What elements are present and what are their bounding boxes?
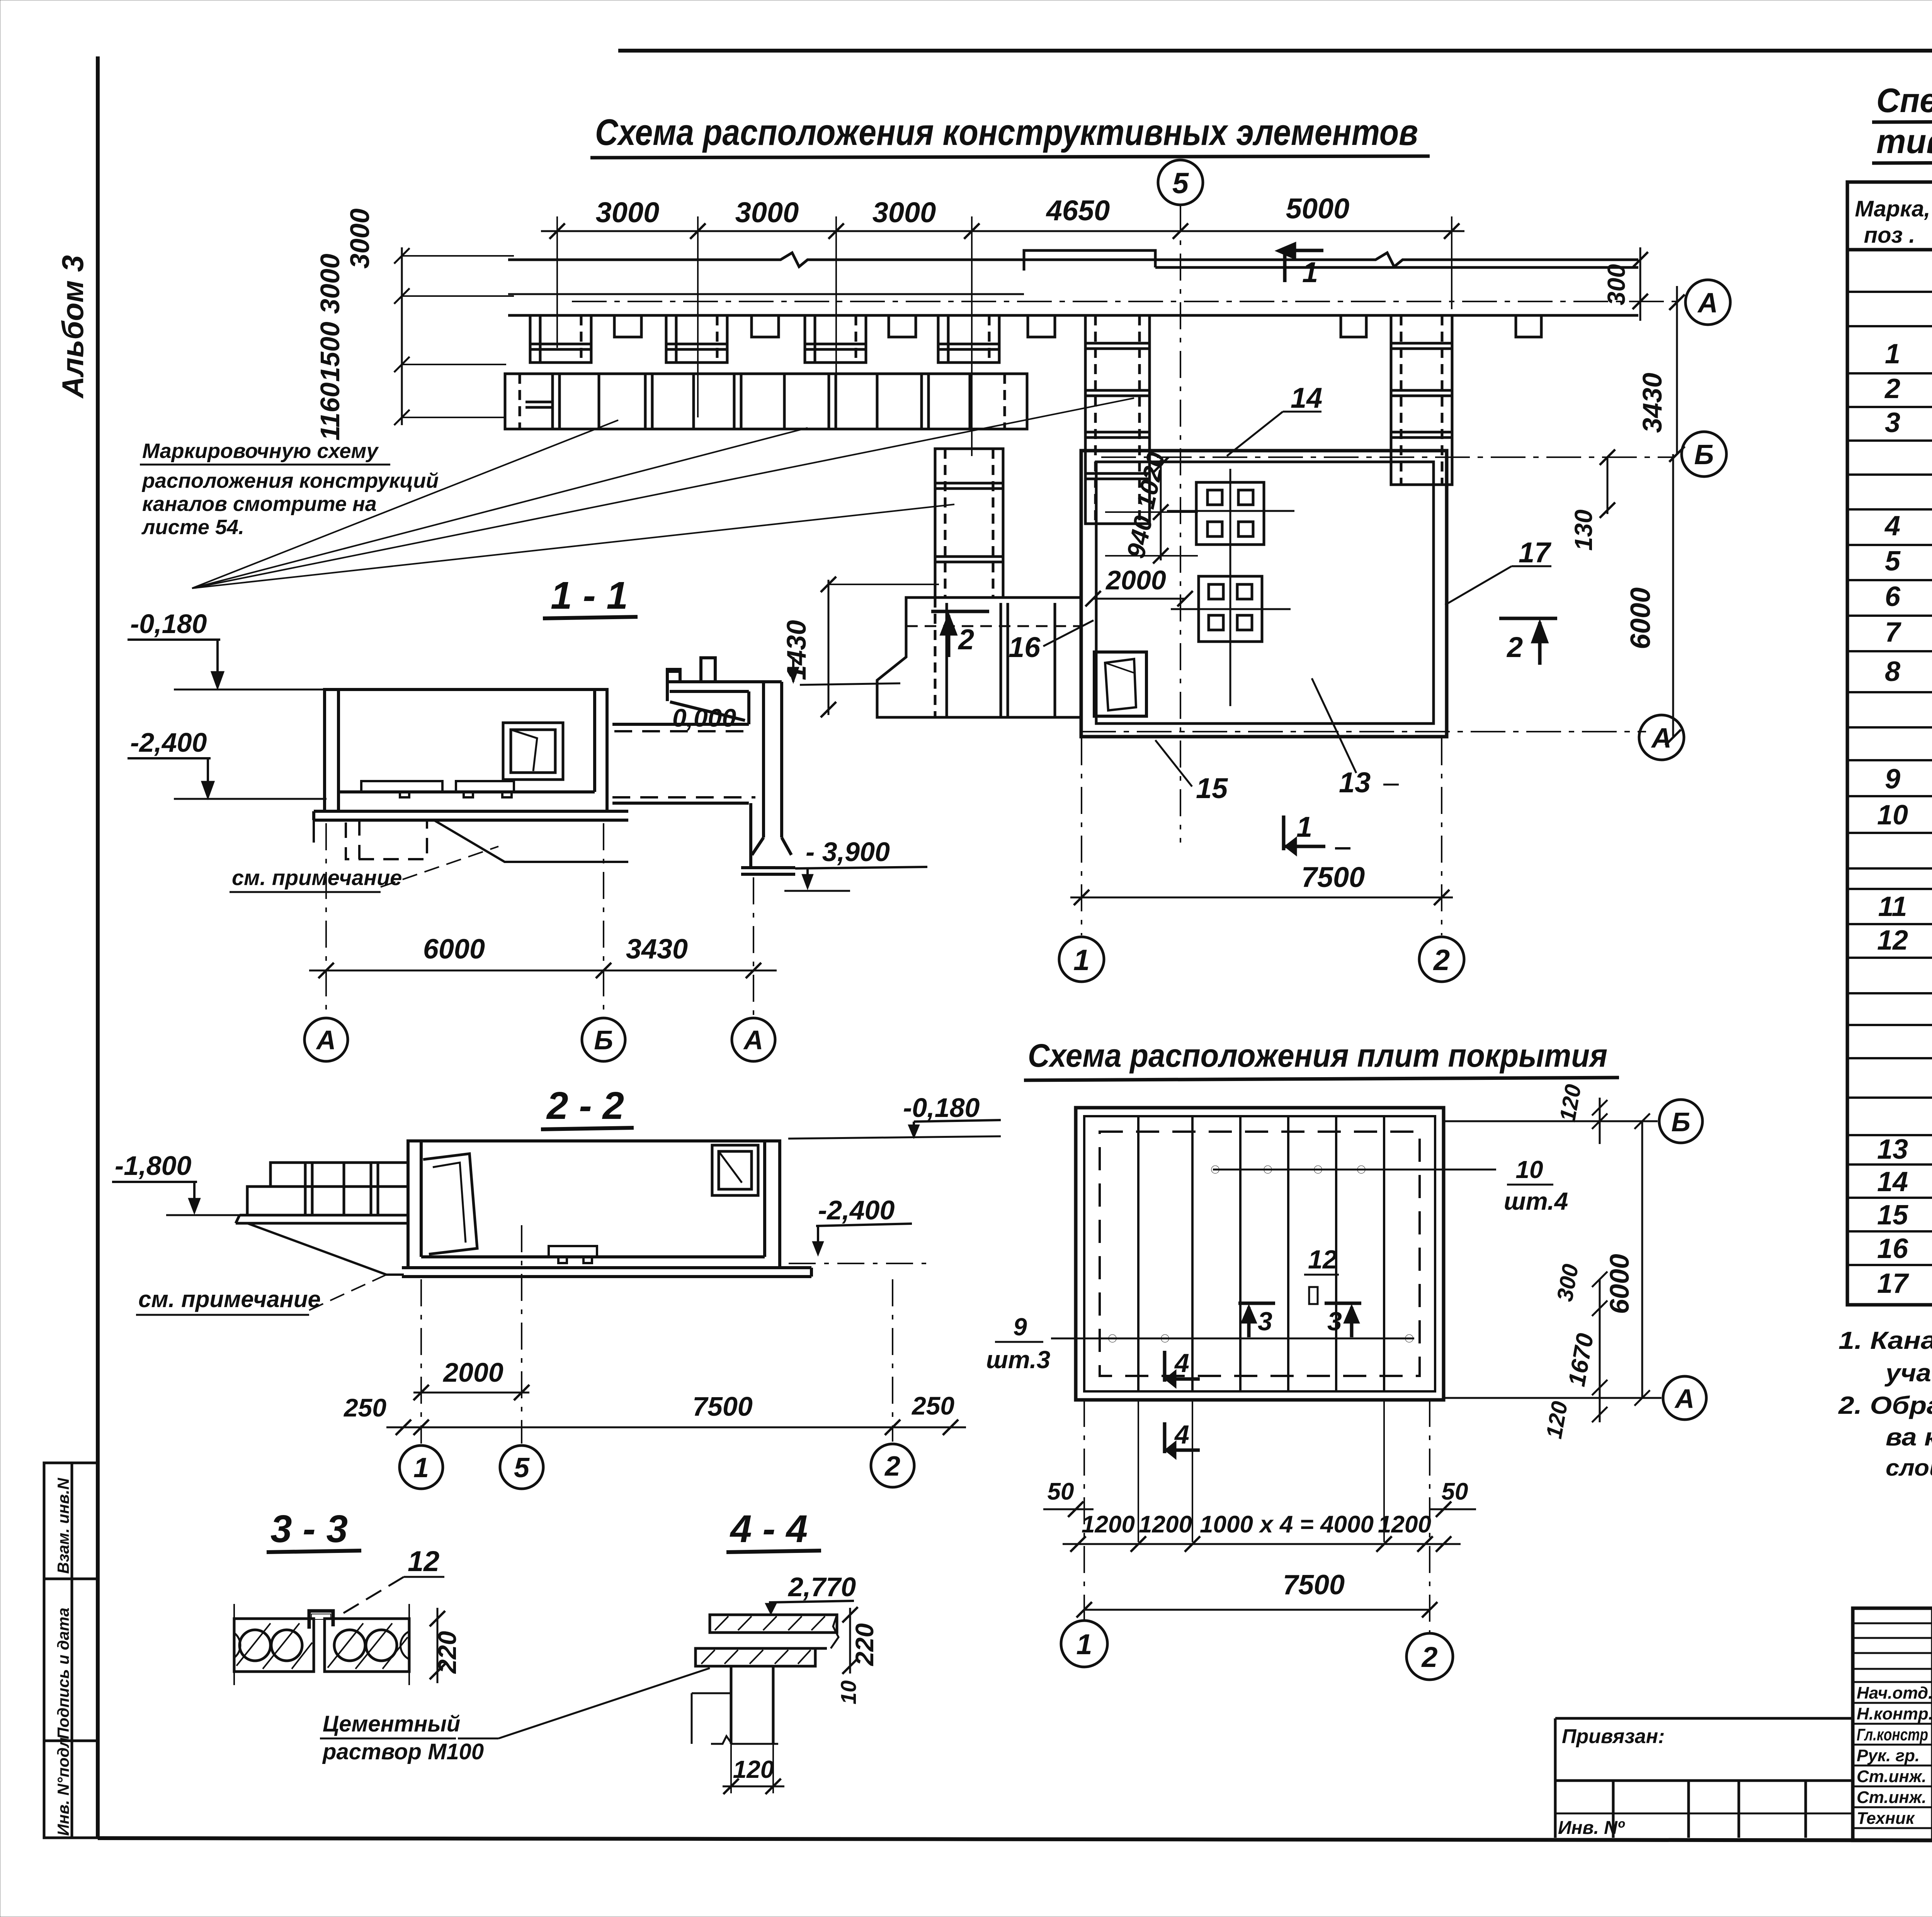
svg-text:16: 16 <box>1009 631 1041 663</box>
svg-text:Нач.отд.: Нач.отд. <box>1857 1684 1932 1702</box>
circles 1 2 <box>1061 1621 1107 1667</box>
right axis lines and circles <box>1445 1120 1658 1122</box>
svg-text:12: 12 <box>1877 925 1908 956</box>
left dim stack <box>394 247 514 425</box>
dims 1020 / 940 <box>1160 460 1162 560</box>
svg-text:1500: 1500 <box>315 322 345 382</box>
dim 2000 <box>413 1392 529 1394</box>
svg-text:11: 11 <box>1878 891 1907 922</box>
svg-text:17: 17 <box>1877 1268 1909 1299</box>
svg-text:1. Каналы монтировать до: 1. Каналы монтировать до бетонирования к… <box>1838 1326 1932 1354</box>
svg-text:7500: 7500 <box>692 1391 753 1422</box>
svg-text:4: 4 <box>1174 1420 1189 1449</box>
svg-text:4650: 4650 <box>1046 194 1110 226</box>
buried dashed box <box>346 820 427 859</box>
svg-text:9: 9 <box>1885 764 1900 795</box>
svg-text:Маркировочную схему: Маркировочную схему <box>142 439 379 463</box>
svg-text:1 - 1: 1 - 1 <box>551 574 628 617</box>
wall line above teeth <box>508 314 1638 317</box>
svg-text:17: 17 <box>1519 536 1552 569</box>
section marks 3 <box>1238 1303 1275 1337</box>
svg-text:6000: 6000 <box>423 934 485 965</box>
svg-text:А: А <box>1674 1384 1695 1414</box>
top dim chain line <box>541 230 1464 232</box>
dim 2000 <box>1093 598 1185 600</box>
svg-text:см. примечание: см. примечание <box>232 865 402 890</box>
svg-text:12: 12 <box>1308 1245 1337 1274</box>
precast block band <box>505 374 1027 429</box>
foundation pad group lower <box>1171 576 1291 642</box>
svg-text:3000: 3000 <box>345 208 375 269</box>
section mark 2 right <box>1499 618 1557 665</box>
svg-text:расположения конструкций: расположения конструкций <box>141 469 439 492</box>
svg-text:- 3,900: - 3,900 <box>806 837 890 867</box>
svg-text:-2,400: -2,400 <box>818 1195 895 1225</box>
svg-text:-1,800: -1,800 <box>115 1151 192 1181</box>
circles 1 5 2 <box>400 1445 443 1489</box>
section mark 1 bottom <box>1284 815 1350 853</box>
svg-text:3 - 3: 3 - 3 <box>270 1507 348 1551</box>
svg-text:2 - 2: 2 - 2 <box>546 1084 624 1127</box>
svg-text:Инв. N°подл: Инв. N°подл <box>54 1737 72 1836</box>
right dims <box>1592 1098 1650 1422</box>
slope <box>247 1223 404 1275</box>
privyazan box <box>1555 1718 1853 1838</box>
svg-text:250: 250 <box>911 1391 954 1420</box>
plan rectangles <box>1076 1108 1444 1400</box>
svg-text:А: А <box>316 1025 336 1055</box>
table outer <box>1847 182 1932 1305</box>
svg-text:16: 16 <box>1877 1233 1908 1264</box>
svg-text:2: 2 <box>1506 631 1523 663</box>
main box <box>408 1141 780 1268</box>
svg-text:120: 120 <box>1555 1083 1586 1124</box>
svg-text:5: 5 <box>1172 167 1189 200</box>
gallery structure right <box>612 658 795 874</box>
floor tabs <box>549 1246 597 1257</box>
svg-text:ва каналов должна производи: ва каналов должна производиться песчаным… <box>1886 1423 1932 1451</box>
svg-text:3430: 3430 <box>1637 373 1667 433</box>
section mark 1 top <box>1279 244 1323 282</box>
dim 130 <box>1607 457 1609 514</box>
svg-text:4: 4 <box>1174 1348 1189 1378</box>
inner duct trapezoid <box>423 1154 477 1254</box>
svg-text:3000: 3000 <box>735 196 799 228</box>
svg-text:6: 6 <box>1885 581 1901 612</box>
svg-text:Инв. Nº: Инв. Nº <box>1558 1818 1625 1838</box>
svg-text:слойно с уплотнением при соблю: слойно с уплотнением при соблюдении след… <box>1886 1455 1932 1481</box>
verticals extending down <box>1083 1400 1085 1621</box>
MC1 connector <box>309 1611 333 1629</box>
svg-text:Цементный: Цементный <box>323 1711 460 1737</box>
3-3 left slab <box>234 1604 314 1685</box>
dim 3430 vertical <box>1676 286 1678 454</box>
svg-text:1200: 1200 <box>1378 1511 1431 1538</box>
svg-text:4 - 4: 4 - 4 <box>730 1507 808 1551</box>
floor items small tabs <box>361 781 514 797</box>
svg-text:3: 3 <box>1885 407 1900 438</box>
dim 6000 vertical <box>1672 454 1674 737</box>
window top right <box>712 1145 758 1195</box>
svg-text:поз .: поз . <box>1864 223 1915 248</box>
svg-text:Привязан:: Привязан: <box>1562 1725 1665 1748</box>
svg-text:1: 1 <box>1296 811 1312 843</box>
svg-text:3000: 3000 <box>596 196 660 228</box>
svg-text:1200: 1200 <box>1082 1511 1135 1538</box>
svg-text:Б: Б <box>1671 1107 1690 1137</box>
tooth 4 <box>938 315 999 363</box>
svg-text:120: 120 <box>1541 1399 1573 1441</box>
channel stack left <box>236 1163 408 1223</box>
svg-text:9: 9 <box>1013 1313 1027 1341</box>
gap notches <box>614 315 641 337</box>
svg-text:Подпись и дата: Подпись и дата <box>54 1608 72 1739</box>
svg-text:0,000: 0,000 <box>672 703 736 732</box>
left stamp box <box>44 1463 98 1838</box>
svg-text:2. Обратная засыпка пазух к: 2. Обратная засыпка пазух котлована в ме… <box>1838 1391 1932 1419</box>
svg-text:10: 10 <box>1515 1156 1543 1183</box>
dim 250 7500 250 <box>386 1427 966 1428</box>
svg-text:1: 1 <box>1076 1628 1092 1660</box>
svg-text:7500: 7500 <box>1301 861 1365 893</box>
tooth 3 <box>805 315 866 363</box>
frame left <box>96 56 100 1838</box>
axis A dash-dot <box>572 301 1681 302</box>
row lines <box>1847 292 1932 1265</box>
svg-text:6000: 6000 <box>1604 1254 1634 1314</box>
leader fan to note <box>192 398 1134 588</box>
svg-text:Ст.инж.: Ст.инж. <box>1857 1788 1927 1807</box>
lotki teeth row (channel sections) <box>530 315 1541 524</box>
svg-text:250: 250 <box>343 1393 386 1422</box>
3-3 dim 220 <box>437 1608 439 1683</box>
svg-text:8: 8 <box>1885 656 1900 687</box>
right side axis circles and dims <box>1685 280 1730 325</box>
svg-text:Схема расположения конструкт: Схема расположения конструктивных элемен… <box>595 112 1418 153</box>
tall tooth 5 <box>1085 315 1150 524</box>
svg-text:300: 300 <box>1552 1262 1583 1304</box>
svg-text:120: 120 <box>733 1755 774 1783</box>
svg-text:7500: 7500 <box>1283 1570 1345 1600</box>
svg-text:1: 1 <box>1885 339 1900 369</box>
trapezoid opening <box>1094 652 1146 716</box>
svg-text:А: А <box>1651 723 1672 754</box>
svg-text:13: 13 <box>1877 1134 1908 1165</box>
svg-text:50: 50 <box>1442 1478 1468 1505</box>
4-4 beam middle <box>710 1631 831 1634</box>
svg-text:Б: Б <box>1694 439 1714 470</box>
foundation pad group upper <box>1167 469 1294 706</box>
svg-text:шт.4: шт.4 <box>1504 1187 1568 1215</box>
svg-text:см. примечание: см. примечание <box>138 1286 321 1312</box>
axis circles 1 2 below <box>1059 937 1104 982</box>
svg-text:130: 130 <box>1570 509 1597 551</box>
svg-text:10: 10 <box>1877 800 1908 831</box>
svg-text:10: 10 <box>836 1680 861 1704</box>
svg-text:50: 50 <box>1048 1478 1074 1505</box>
VENT ROOM <box>1081 451 1447 737</box>
svg-text:2: 2 <box>1884 373 1900 404</box>
svg-text:3000: 3000 <box>315 254 345 314</box>
canal duct horizontal <box>877 598 1081 717</box>
svg-text:Взам. инв.N: Взам. инв.N <box>54 1477 72 1574</box>
signer names <box>1857 1684 1932 1828</box>
step rect near 4650 span <box>1024 250 1155 271</box>
tunnel band top line <box>508 253 1638 267</box>
4-4 dims <box>849 1608 851 1674</box>
basement box <box>325 690 607 811</box>
tooth 1 <box>530 315 591 363</box>
dim 7500 below room <box>1070 897 1453 899</box>
dim 300 <box>1639 247 1641 321</box>
svg-text:3000: 3000 <box>872 196 936 228</box>
svg-text:Рук. гр.: Рук. гр. <box>1857 1746 1920 1765</box>
svg-text:раствор М100: раствор М100 <box>322 1739 484 1764</box>
svg-text:5000: 5000 <box>1286 192 1350 225</box>
svg-text:Б: Б <box>594 1025 613 1055</box>
svg-text:14: 14 <box>1877 1166 1908 1197</box>
canal duct vertical box <box>935 449 1003 598</box>
svg-text:220: 220 <box>850 1623 879 1667</box>
svg-text:Марка,: Марка, <box>1855 196 1930 221</box>
svg-text:220: 220 <box>433 1631 461 1674</box>
svg-text:1000 x 4 = 4000: 1000 x 4 = 4000 <box>1200 1511 1374 1538</box>
window in box <box>503 723 563 780</box>
axis drops <box>325 823 327 1016</box>
svg-text:3: 3 <box>1327 1307 1342 1336</box>
svg-text:1: 1 <box>413 1452 429 1483</box>
svg-text:-0,180: -0,180 <box>130 609 207 639</box>
svg-text:Ст.инж.: Ст.инж. <box>1857 1767 1927 1786</box>
frame bottom <box>98 1838 1932 1841</box>
header bottom (thick) <box>1847 248 1932 252</box>
4-4 top slab <box>710 1615 837 1633</box>
axis Б dash through top wall <box>1101 456 1673 458</box>
svg-text:Спецификация к схеме распол: Спецификация к схеме расположения констр… <box>1876 81 1932 119</box>
svg-text:1160: 1160 <box>315 382 345 441</box>
bottom slab <box>314 811 628 820</box>
tall tooth 6 <box>1391 315 1452 485</box>
axis circle 5 <box>1158 160 1203 205</box>
svg-text:2,770: 2,770 <box>787 1572 856 1602</box>
svg-text:Н.контр.: Н.контр. <box>1857 1704 1932 1723</box>
svg-text:2: 2 <box>957 623 974 655</box>
svg-text:6000: 6000 <box>1625 587 1656 649</box>
svg-text:3430: 3430 <box>626 934 688 965</box>
svg-text:листе 54.: листе 54. <box>141 516 244 539</box>
dim 1430 <box>828 580 830 715</box>
svg-text:каналов смотрите на: каналов смотрите на <box>142 492 377 516</box>
svg-text:15: 15 <box>1196 772 1228 804</box>
plank verticals <box>1138 1116 1384 1391</box>
svg-text:7: 7 <box>1885 617 1901 648</box>
svg-text:участков плиты перекрытия: участков плиты перекрытия тоннеля. <box>1884 1359 1932 1387</box>
frame top <box>618 49 1932 53</box>
4-4 lower slab <box>696 1648 815 1666</box>
bottom slab <box>402 1268 811 1277</box>
svg-text:1200: 1200 <box>1139 1511 1192 1538</box>
svg-text:-2,400: -2,400 <box>130 727 207 758</box>
svg-text:А: А <box>1697 288 1718 318</box>
svg-text:14: 14 <box>1291 382 1322 414</box>
svg-text:Техник: Техник <box>1857 1809 1915 1828</box>
svg-text:2000: 2000 <box>1105 565 1166 595</box>
table row texts <box>1877 254 1932 1299</box>
svg-text:2: 2 <box>1421 1641 1437 1673</box>
svg-text:1: 1 <box>1073 944 1090 977</box>
svg-text:2000: 2000 <box>442 1357 503 1388</box>
tooth 2 <box>666 315 727 363</box>
3-3 right slab <box>325 1604 409 1685</box>
label 10 шт.4 with dotted leader <box>1213 1169 1496 1171</box>
svg-text:Схема расположения плит покры: Схема расположения плит покрытия <box>1028 1037 1607 1074</box>
svg-text:3: 3 <box>1258 1307 1272 1336</box>
svg-text:4: 4 <box>1884 511 1900 541</box>
svg-text:Гл.констр: Гл.констр <box>1857 1725 1928 1744</box>
svg-text:5: 5 <box>514 1452 530 1483</box>
excavation slope <box>434 820 628 862</box>
svg-text:тивных элементов вентпоме: тивных элементов вентпомещения <box>1876 122 1932 160</box>
svg-text:шт.3: шт.3 <box>986 1346 1050 1374</box>
svg-text:5: 5 <box>1885 546 1901 577</box>
svg-text:2: 2 <box>1433 944 1450 977</box>
section marks 4 <box>1165 1351 1200 1385</box>
dim extension verticals <box>557 216 1452 456</box>
svg-text:Альбом 3: Альбом 3 <box>56 255 90 399</box>
svg-text:2: 2 <box>884 1451 900 1482</box>
label 9 шт.3 with dotted leader <box>1051 1338 1414 1340</box>
dims 6000 3430 <box>309 970 777 972</box>
axis 5 dash line <box>1180 205 1181 843</box>
svg-text:1020: 1020 <box>1131 450 1170 511</box>
left small rows (top empty) <box>1853 1623 1932 1828</box>
svg-text:300: 300 <box>1602 264 1630 305</box>
svg-text:12: 12 <box>408 1545 439 1577</box>
axis A2 dash through bottom wall <box>1081 731 1646 732</box>
axes drops <box>420 1279 422 1444</box>
svg-text:1670: 1670 <box>1563 1331 1599 1389</box>
svg-text:15: 15 <box>1877 1200 1908 1231</box>
section mark 2 left <box>931 611 989 657</box>
wall below <box>692 1666 778 1744</box>
band second line <box>508 293 1024 295</box>
svg-text:-0,180: -0,180 <box>903 1093 980 1123</box>
svg-text:940: 940 <box>1121 513 1158 561</box>
svg-text:А: А <box>743 1025 764 1055</box>
dim ticks <box>549 223 1459 239</box>
